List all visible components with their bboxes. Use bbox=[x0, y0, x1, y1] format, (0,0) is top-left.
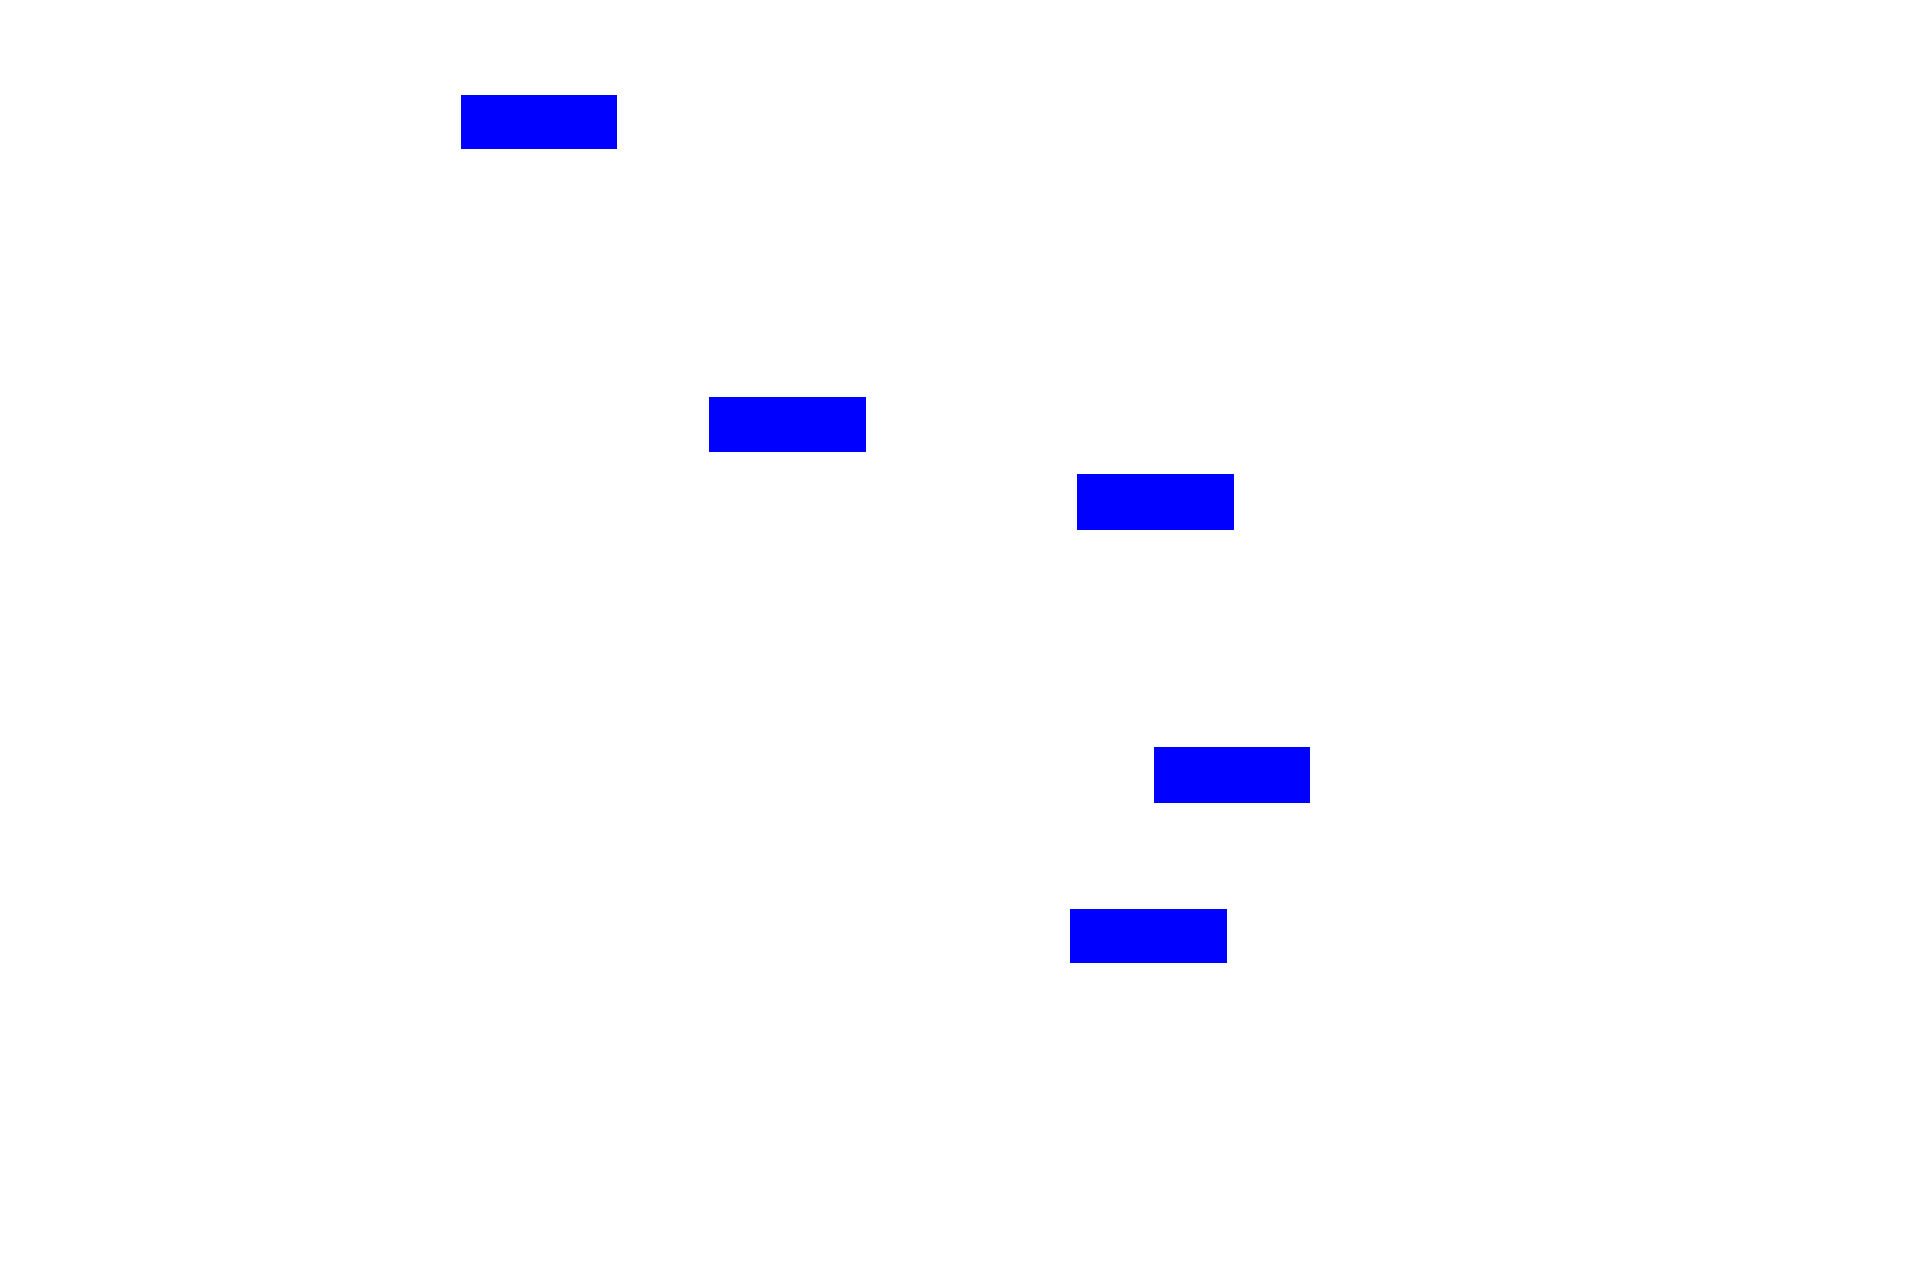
blue rectangle 5 bbox=[1070, 909, 1227, 963]
blue rectangle 1 bbox=[461, 95, 617, 149]
blue rectangle 4 bbox=[1154, 747, 1310, 803]
blue rectangle 2 bbox=[709, 397, 866, 452]
blue rectangle 3 bbox=[1077, 474, 1234, 530]
